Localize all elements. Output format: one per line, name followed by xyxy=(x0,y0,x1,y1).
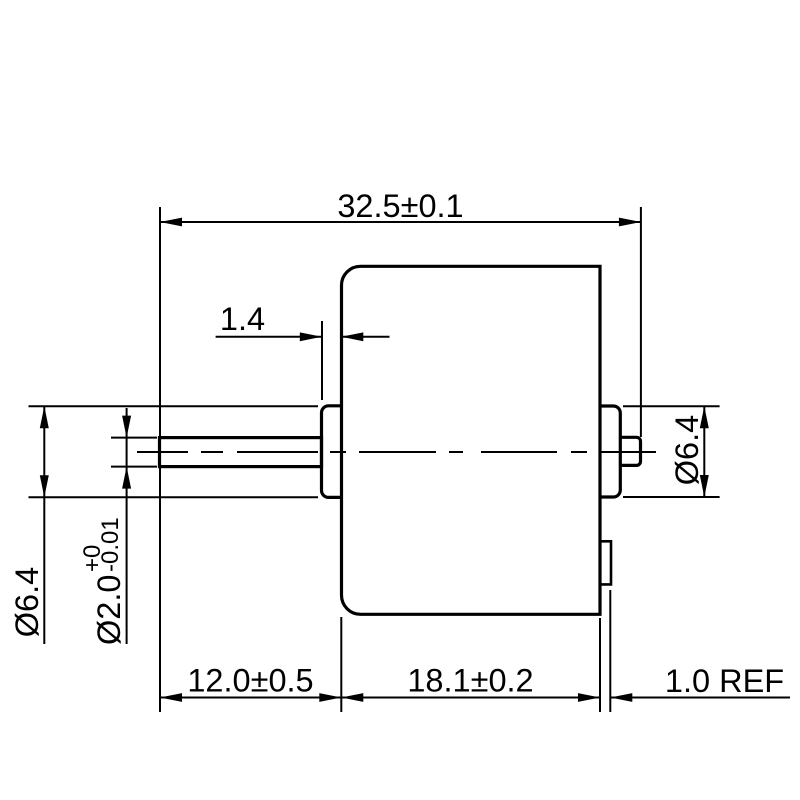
extension line at shaft tip (x=160) xyxy=(159,207,161,712)
svg-text:Ø2.0: Ø2.0 xyxy=(91,575,127,645)
svg-text:1.0 REF: 1.0 REF xyxy=(665,663,784,699)
terminal tab xyxy=(600,541,611,584)
dimension 12.0±0.5 line xyxy=(160,693,341,702)
dimension Ø2.0 line xyxy=(122,408,131,644)
dimension Ø6.4 right text xyxy=(669,415,705,485)
svg-text:12.0±0.5: 12.0±0.5 xyxy=(187,663,313,699)
dimension 18.1±0.2 text xyxy=(407,663,533,699)
dimension Ø2.0 +0/-0.01 text xyxy=(79,517,127,645)
dimension 32.5±0.1 text xyxy=(337,188,463,224)
dimension Ø6.4 left line xyxy=(40,406,49,644)
svg-text:32.5±0.1: 32.5±0.1 xyxy=(337,188,463,224)
motor body xyxy=(342,266,601,614)
svg-text:-0.01: -0.01 xyxy=(97,517,124,572)
extension lines front boss top and bottom (left Ø6.4) xyxy=(29,406,319,497)
extension line at body rear face (x=600) xyxy=(599,618,601,712)
dimension 1.0 REF line xyxy=(610,693,790,702)
dimension 32.5±0.1 line xyxy=(160,218,641,227)
svg-text:Ø6.4: Ø6.4 xyxy=(9,567,45,637)
extension line at body front face (x=341) xyxy=(340,617,342,712)
extension line at terminal tab edge (x=610) xyxy=(609,590,611,712)
dimension 1.4 lines xyxy=(216,332,390,341)
svg-text:Ø6.4: Ø6.4 xyxy=(669,415,705,485)
centerline (shaft axis, dash-dot) xyxy=(137,451,656,453)
svg-text:1.4: 1.4 xyxy=(220,301,265,337)
svg-text:18.1±0.2: 18.1±0.2 xyxy=(407,663,533,699)
extension line at boss step for 1.4 dim xyxy=(321,321,323,400)
dimension 1.4 text xyxy=(220,301,265,337)
front bearing boss xyxy=(322,406,342,498)
motor shaft xyxy=(160,438,322,467)
rear shaft stub xyxy=(620,437,640,465)
dimension 18.1±0.2 line xyxy=(341,693,600,702)
dimension 12.0±0.5 text xyxy=(187,663,313,699)
extension lines shaft top and bottom (Ø2.0) xyxy=(111,438,157,467)
dimension Ø6.4 left text xyxy=(9,567,45,637)
dimension Ø6.4 right line xyxy=(700,406,709,497)
dimension 1.0 REF text xyxy=(665,663,784,699)
extension line at rear stub end (x=641) xyxy=(640,207,642,437)
rear bearing boss xyxy=(600,406,620,497)
extension lines rear boss top and bottom (right Ø6.4) xyxy=(623,406,720,497)
